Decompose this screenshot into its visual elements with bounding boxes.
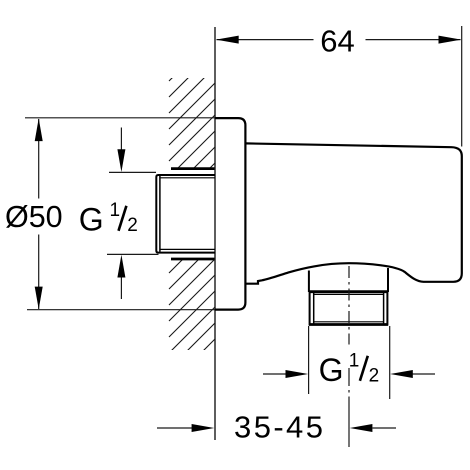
dimension 64: left extension is wall face line, right extension line: [461, 26, 463, 147]
svg-text:Ø50: Ø50: [5, 200, 63, 234]
svg-text:G: G: [79, 201, 104, 237]
body outline: [245, 143, 461, 283]
inlet thread G1/2 outer outline: [156, 175, 215, 253]
svg-text:64: 64: [320, 23, 354, 58]
svg-text:G: G: [319, 352, 344, 388]
dimension D50 bottom extension line: [27, 309, 215, 311]
dimension 35-45 right arrow (points left at center line): [373, 427, 397, 429]
outlet boss left edge: [308, 271, 310, 293]
dimension D50 line lower segment: [38, 235, 40, 310]
wall face line: [214, 27, 216, 440]
svg-text:1: 1: [349, 350, 360, 371]
dimension 35-45 left arrow (points right at wall face): [157, 427, 192, 429]
outlet arrow pointing right: [263, 373, 286, 375]
wall hole top edge: [171, 167, 215, 170]
center line of outlet: [348, 266, 350, 447]
dimension 64 line right segment: [366, 39, 461, 41]
inlet thread inner top line: [160, 177, 215, 179]
dimension D50 top extension line: [25, 117, 215, 119]
outlet thread inner bottom line: [314, 321, 384, 323]
flange outline: [215, 118, 245, 310]
arrow left of 64: [216, 36, 239, 44]
outlet boss right edge: [387, 268, 389, 292]
wall hatching: [169, 35, 215, 401]
dimension 64 line left segment: [217, 39, 314, 41]
inlet thread inner bottom line: [160, 248, 215, 250]
outlet arrow pointing left: [413, 373, 436, 375]
arrow up of D50: [35, 118, 43, 141]
outlet thread left chamfer: [313, 293, 315, 324]
dimension D50 line upper segment: [38, 119, 40, 199]
svg-text:2: 2: [127, 215, 138, 236]
inlet G1/2 top extension line: [109, 171, 156, 173]
outlet thread G1/2 outer rect: [310, 292, 388, 325]
svg-text:35-45: 35-45: [234, 410, 325, 445]
outlet thread inner top line: [314, 293, 384, 295]
arrow down of D50: [35, 287, 43, 310]
inlet G1/2 bottom extension line: [107, 253, 159, 255]
inlet arrow down: [120, 128, 122, 151]
outlet thread top crest line: [309, 290, 388, 293]
outlet G1/2 right extension line: [389, 326, 391, 399]
svg-text:2: 2: [369, 365, 380, 386]
svg-text:1: 1: [110, 200, 121, 221]
outlet thread right chamfer: [383, 293, 385, 324]
outlet thread bottom crest line: [309, 323, 388, 326]
wall hole bottom edge: [171, 258, 215, 261]
inlet thread left chamfer: [159, 176, 161, 252]
arrow right of 64: [439, 36, 462, 44]
outlet G1/2 left extension line: [308, 326, 310, 394]
inlet arrow up: [120, 277, 122, 300]
